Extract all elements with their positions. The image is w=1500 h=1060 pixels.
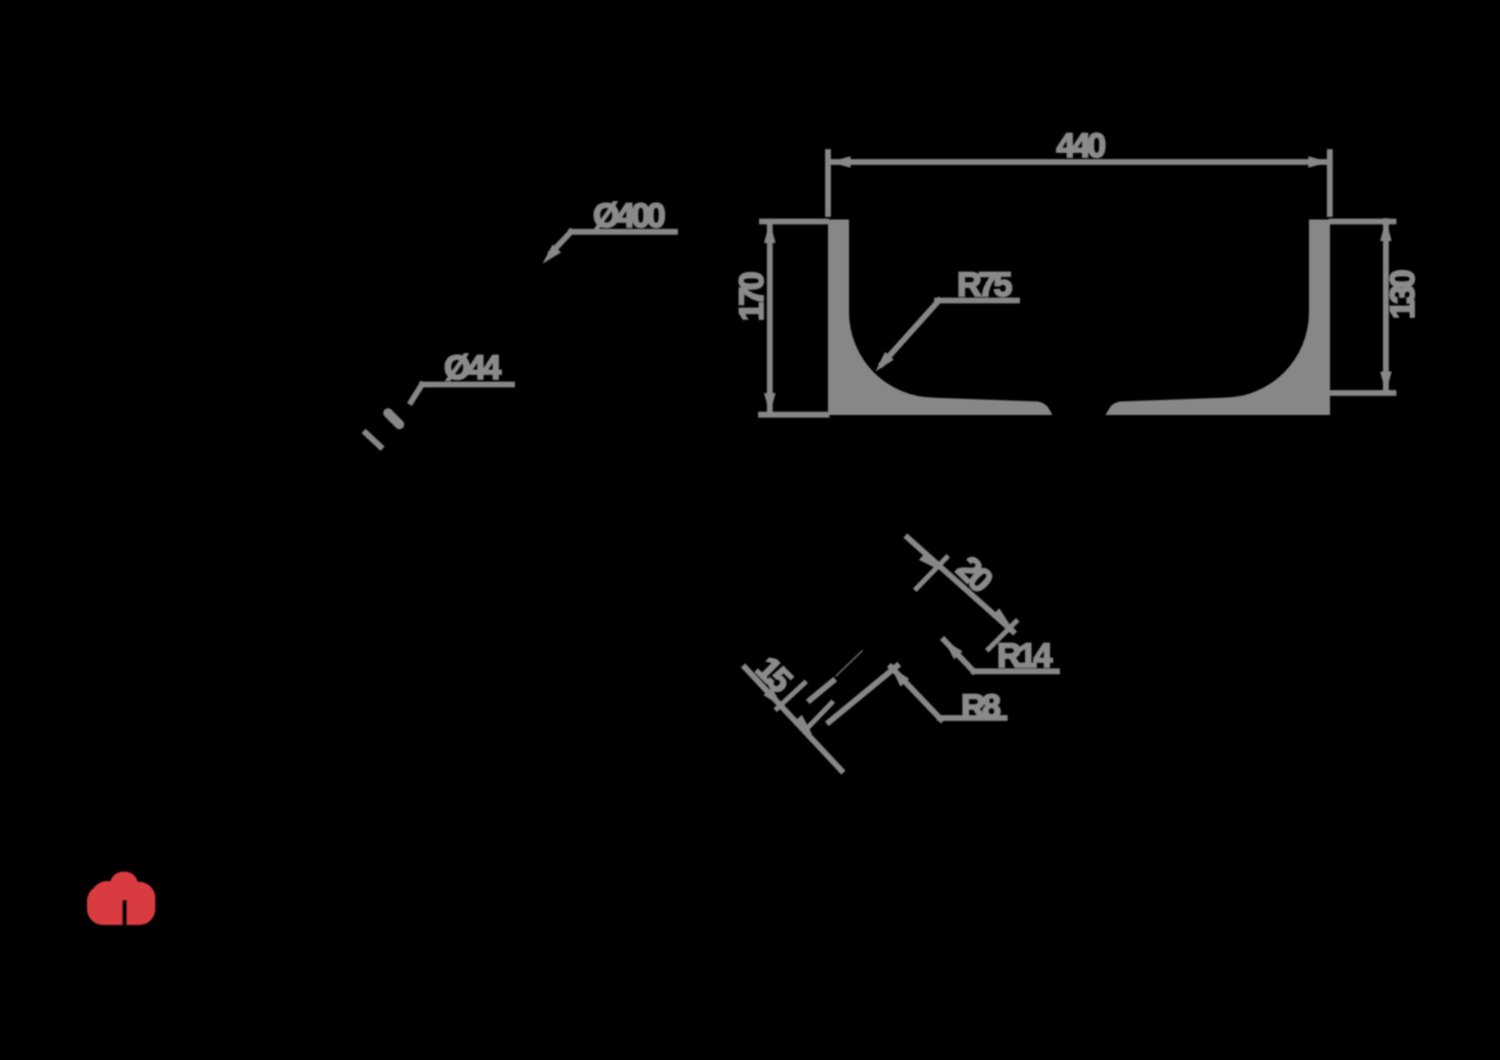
svg-text:20: 20 [949, 549, 999, 600]
diameter 44 callout: arrowhead bar [388, 413, 400, 425]
detail dimension 20: second extension tick [989, 622, 1017, 650]
detail dimension 20: second arrowhead [991, 608, 1014, 631]
dimension 170: dimension line [767, 223, 773, 413]
dimension 170: bottom extension line [761, 412, 827, 418]
svg-text:R8: R8 [961, 688, 1000, 726]
dimension 440: right extension line [1327, 152, 1333, 214]
R8 callout: arrowhead [887, 663, 910, 686]
diameter 400 callout: shoulder line [571, 229, 675, 235]
diameter 400 callout: leader line [552, 232, 572, 253]
detail dimension 15: second arrowhead [793, 715, 816, 738]
detail dimension 15: first arrowhead [763, 687, 786, 710]
dimension 130: bottom arrowhead [1380, 372, 1392, 393]
R14 callout: shoulder line [974, 668, 1057, 674]
dimension 130: top arrowhead [1380, 220, 1392, 241]
R75 callout: leader line [882, 301, 939, 365]
detail dimension 15: first extension tick [777, 683, 805, 709]
dimension 170: bottom arrowhead [764, 393, 776, 414]
svg-text:130: 130 [1384, 270, 1422, 319]
dimension 130: dimension line [1383, 221, 1389, 392]
detail faint edge line [836, 651, 862, 676]
diameter 44 callout: leader tail segment [366, 433, 381, 447]
dimension 440: right arrowhead [1308, 156, 1329, 168]
detail extension line stub [810, 681, 833, 700]
diameter 400 callout: arrowhead [538, 244, 561, 267]
dimension 130: bottom extension line [1333, 390, 1394, 396]
dimension 170: top extension line [762, 219, 826, 225]
detail dimension 15: dimension line [745, 668, 841, 771]
svg-text:R14: R14 [997, 637, 1052, 675]
svg-text:Ø400: Ø400 [593, 197, 665, 235]
dimension 170: top arrowhead [764, 222, 776, 243]
dimension 440: left extension line [825, 152, 831, 214]
svg-text:170: 170 [733, 272, 771, 321]
R75 callout: shoulder line [937, 298, 1017, 304]
R75 callout: arrowhead [871, 352, 894, 375]
detail extension line to inner corner [829, 666, 897, 722]
logo cloud right lobe [123, 882, 156, 915]
dimension 130: top extension line [1332, 219, 1394, 225]
svg-text:Ø44: Ø44 [444, 349, 501, 387]
dimension 440: dimension line [831, 159, 1328, 165]
diameter 44 callout: leader line segment [411, 385, 422, 403]
logo cloud trunk slit [122, 900, 127, 925]
R8 callout: shoulder line [940, 715, 1005, 721]
logo cloud base [87, 885, 155, 925]
basin section fill, right half [1106, 220, 1331, 416]
R14 callout: leader line [944, 640, 974, 671]
dimension 440: left arrowhead [830, 156, 851, 168]
diameter 44 callout: shoulder line [422, 382, 512, 388]
R14 callout: arrowhead [940, 636, 963, 659]
R8 callout: leader line [891, 667, 941, 719]
detail dimension 20: first extension tick [917, 558, 947, 589]
logo cloud middle lobe [110, 872, 138, 902]
detail dimension 20: first arrowhead [919, 551, 942, 574]
svg-text:R75: R75 [957, 266, 1011, 304]
svg-text:440: 440 [1056, 127, 1105, 165]
logo cloud left lobe [91, 881, 123, 913]
detail dimension 20: dimension line [908, 538, 1014, 632]
detail dimension 15: second extension tick [805, 703, 832, 731]
basin section fill, left half [828, 220, 1053, 416]
